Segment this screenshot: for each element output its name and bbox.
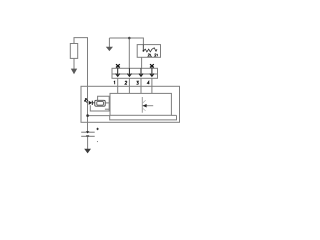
capacitor C1 plate2 — [81, 135, 95, 137]
capacitor plate1 arrow tick — [86, 131, 89, 133]
junction dot LED node — [86, 114, 89, 117]
arrow ground top middle — [106, 47, 113, 51]
relay box U1 — [137, 45, 160, 58]
LED light arrow b — [85, 100, 88, 102]
resistor R1 — [70, 44, 77, 59]
arrow pin2 in strip — [127, 68, 131, 76]
arrow pin4 in strip — [150, 68, 154, 76]
wire column2 up — [128, 38, 130, 68]
pin label 1 — [113, 81, 116, 84]
LED D1 output lead — [92, 102, 95, 104]
wire stub X1 — [117, 67, 119, 68]
arrow pin1 in strip — [116, 68, 120, 76]
wire column3 from box bottom — [141, 58, 143, 69]
transistor Q1 base lead — [142, 105, 153, 107]
opto output box inner — [97, 102, 104, 106]
pin label 4 — [147, 81, 149, 84]
capacitor plate2 arrow tick — [86, 135, 89, 137]
node top rail — [109, 38, 143, 45]
transistor Q1 arrow — [143, 104, 147, 108]
outer board rectangle — [81, 86, 180, 122]
wire stub X4 — [151, 67, 153, 68]
arrow pin3 in strip — [139, 68, 143, 76]
transistor Q1 collector diagonal — [142, 100, 145, 103]
wire arrow stem — [108, 38, 110, 47]
wire bracket around opto output — [90, 96, 110, 111]
wire capacitor to ground — [87, 136, 89, 149]
wire stub opto to module — [105, 108, 110, 110]
value label in box U1 — [148, 54, 157, 56]
connector strip J1 — [112, 68, 158, 78]
capacitor C1 plate1 — [81, 131, 95, 133]
arrow ground below resistor — [71, 69, 77, 75]
pin label 2 — [125, 81, 127, 84]
wire opto box right lead — [105, 102, 109, 104]
wire column1 below strip — [117, 78, 119, 93]
dot mark right of capacitor — [97, 141, 98, 142]
LED D1 cathode bar — [91, 101, 93, 105]
opto output box outer — [95, 100, 105, 106]
plus label capacitor — [96, 128, 98, 130]
pin label 3 — [137, 81, 139, 84]
wire column3 below strip — [140, 78, 142, 93]
wire resistor bottom lead — [73, 58, 75, 69]
LED light arrow a — [85, 98, 88, 100]
X mark column4 — [150, 64, 154, 67]
wire resistor top loop to LED anode — [74, 38, 88, 132]
arrow ground below capacitor — [84, 149, 91, 154]
LED D1 triangle — [89, 101, 92, 105]
junction node dot top rail — [128, 37, 131, 40]
wire column2 below strip — [128, 78, 130, 93]
wire column4 below strip — [151, 78, 153, 93]
resistor zigzag in box U1 — [143, 48, 157, 52]
wire strip midline — [112, 73, 158, 75]
wire loop from LED node under module — [88, 115, 177, 120]
switch contact in box U1 — [142, 45, 144, 51]
contact dot in box U1 — [143, 50, 145, 52]
transistor Q1 bar — [141, 97, 143, 113]
X mark column1 — [116, 64, 120, 67]
inner module rectangle — [110, 93, 171, 115]
transistor Q1 emitter diagonal — [142, 108, 145, 111]
